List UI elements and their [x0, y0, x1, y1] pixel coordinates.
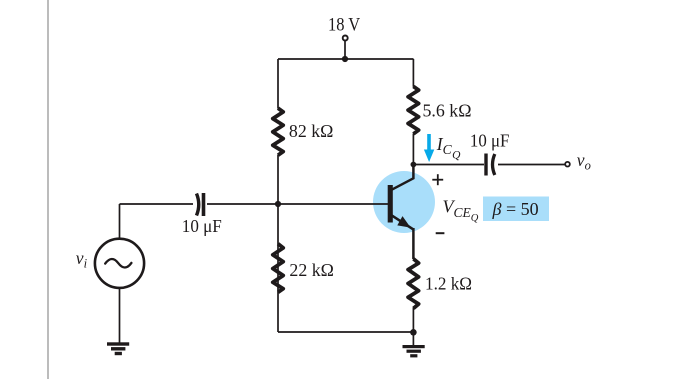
svg-text:10 μF: 10 μF [182, 216, 222, 236]
svg-text:ICQ: ICQ [436, 134, 461, 162]
svg-text:5.6 kΩ: 5.6 kΩ [423, 101, 472, 121]
svg-text:18 V: 18 V [328, 15, 360, 36]
svg-text:VCEQ: VCEQ [443, 197, 479, 225]
svg-text:22 kΩ: 22 kΩ [289, 260, 334, 280]
svg-text:β = 50: β = 50 [492, 199, 539, 219]
svg-text:10 μF: 10 μF [470, 131, 510, 151]
svg-text:1.2 kΩ: 1.2 kΩ [425, 273, 472, 293]
svg-text:82 kΩ: 82 kΩ [289, 121, 334, 141]
svg-text:vi: vi [76, 248, 88, 270]
svg-text:vo: vo [577, 150, 591, 172]
